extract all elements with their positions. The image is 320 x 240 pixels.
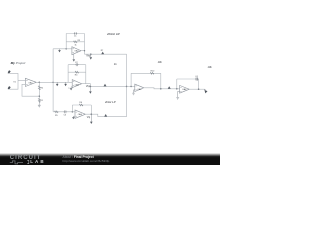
svg-text:R2: R2 <box>41 87 44 89</box>
ground stub below OA6 <box>176 91 179 99</box>
feedback rect right vertical <box>84 34 86 55</box>
node rect-output junction right-stage <box>160 88 162 90</box>
wire T1 to node <box>9 73 18 80</box>
svg-text:R7: R7 <box>101 50 103 52</box>
logo LAB glyph box <box>27 160 29 163</box>
wire divider vertical <box>38 82 40 105</box>
probe below bottom node <box>90 114 93 124</box>
wire T2 up to + input <box>9 80 25 89</box>
feedback rect left vertical far-right <box>176 79 178 89</box>
footer line 1 <box>63 155 94 159</box>
svg-text:R6: R6 <box>79 102 82 104</box>
feedback rect left vertical <box>65 34 67 49</box>
resistor R10 on right feedback <box>150 70 155 74</box>
wire top-stage input row <box>53 48 72 50</box>
flag below top input wire <box>58 49 61 53</box>
wire OA5 output row <box>144 88 180 89</box>
flag on wire to OA6 <box>168 86 171 89</box>
flag R9 on bottom row <box>104 114 107 117</box>
wire OA1 output row <box>36 81 72 83</box>
svg-text:OA2: OA2 <box>74 50 79 53</box>
node to bottom stage branch <box>52 82 54 84</box>
feedback rect right vertical right-stage <box>160 73 162 89</box>
feedback branch 2 wire <box>68 71 86 73</box>
logo LAB text <box>30 159 46 164</box>
flag on main row 1 <box>56 82 59 86</box>
svg-text:R4: R4 <box>75 75 78 77</box>
feedback rect right vertical far-right <box>198 79 200 89</box>
svg-text:R5: R5 <box>55 115 58 117</box>
ground (divider) <box>38 105 41 107</box>
node feedback left bottom <box>72 111 74 113</box>
node feedback left right-stage <box>130 86 132 88</box>
resistor R1 (divider bottom) <box>38 98 43 102</box>
feedback rect top wire <box>68 64 86 66</box>
VEE stub below OA4 <box>72 116 75 119</box>
feedback rect top wire far-right <box>177 78 199 80</box>
node probe junction top row <box>90 53 92 55</box>
wire bus to OA5 input <box>127 85 135 87</box>
node middle output <box>90 86 92 88</box>
footer bar <box>0 153 220 166</box>
resistor R5 on input <box>55 111 59 117</box>
VEE stub below OA3 <box>70 87 73 90</box>
probe below middle node <box>89 86 92 93</box>
feedback rect top wire bottom <box>72 104 91 106</box>
input terminal T2 <box>8 86 11 89</box>
feedback rect left vertical bottom <box>71 105 73 112</box>
feedback rect left vertical <box>67 65 69 83</box>
node bus/middle row <box>126 86 128 88</box>
footer line 2 url <box>63 159 110 163</box>
node feedback left far-right <box>176 88 178 90</box>
svg-text:10k: 10k <box>158 60 163 64</box>
flag R7 on top row <box>101 50 104 54</box>
node rect-output junction far-right <box>198 88 200 90</box>
CircuitLab logo <box>10 155 42 161</box>
svg-text:200Hz HP: 200Hz HP <box>106 32 120 36</box>
flag R8 on middle row <box>104 84 107 87</box>
node feedback left <box>65 48 67 50</box>
svg-text:C1: C1 <box>74 36 77 38</box>
resistor R6 on bottom feedback <box>79 102 83 106</box>
svg-text:1k: 1k <box>114 62 117 66</box>
node rect-output junction <box>84 50 85 51</box>
wire OA2 output row <box>81 51 127 55</box>
svg-text:10k: 10k <box>208 65 213 69</box>
feedback tap node <box>39 95 41 97</box>
resistor R2 (feedback divider top) <box>38 86 44 90</box>
resistor R4 on branch 2 <box>75 71 79 76</box>
op-amp OA4 (bottom) <box>75 110 85 118</box>
op-amp OA1 (left buffer) <box>25 78 36 86</box>
feedback rect right vertical bottom <box>90 105 92 114</box>
wire OA3 output jog <box>82 84 127 87</box>
capacitor C1 on top branch <box>74 32 77 38</box>
feedback rect right vertical <box>85 65 87 84</box>
feedback rect left vertical right-stage <box>130 73 132 86</box>
feedback rect top wire right-stage <box>131 72 161 74</box>
svg-text:1k: 1k <box>75 44 77 46</box>
VEE stub below OA2 <box>73 54 76 62</box>
wire bottom input row <box>53 111 75 113</box>
output terminal <box>204 89 207 93</box>
feedback rect top wire <box>66 33 84 35</box>
flag on main row 2 <box>64 82 70 89</box>
op-amp OA2 (top) <box>72 47 81 55</box>
capacitor C2 on top branch <box>75 62 79 66</box>
svg-text:My Project: My Project <box>11 61 26 65</box>
wire OA6 output <box>189 88 205 90</box>
node at divider top <box>39 82 41 84</box>
wire feedback return to inverting input <box>22 84 39 96</box>
probe below top node <box>90 54 93 59</box>
input terminal T1 <box>8 70 11 73</box>
wire OA4 output jog <box>85 114 126 116</box>
svg-text:Vlp: Vlp <box>87 117 91 119</box>
feedback branch 2 wire <box>66 41 84 43</box>
svg-text:R1: R1 <box>40 100 43 102</box>
svg-text:OA6: OA6 <box>182 88 187 91</box>
capacitor C3 on input <box>64 110 67 116</box>
wire left bus vertical <box>52 49 54 112</box>
resistor R3 on branch 2 <box>74 40 81 46</box>
capacitor C4 on far-right feedback <box>195 76 198 81</box>
node bottom output <box>91 113 93 115</box>
svg-text:V1: V1 <box>13 81 16 83</box>
svg-text:Vbp: Vbp <box>86 86 91 88</box>
svg-text:C3: C3 <box>64 115 67 117</box>
svg-text:C2: C2 <box>75 62 78 64</box>
op-amp OA3 (middle) <box>72 80 82 88</box>
wire bus vertical <box>126 54 128 116</box>
ground stub below OA5 <box>132 90 135 95</box>
svg-text:OA5: OA5 <box>137 88 142 91</box>
svg-text:C4: C4 <box>195 76 198 78</box>
svg-text:2kHz LP: 2kHz LP <box>104 100 116 104</box>
svg-text:R10: R10 <box>151 70 156 72</box>
op-amp OA6 <box>180 85 190 93</box>
op-amp OA5 <box>135 84 144 92</box>
logo waveform <box>10 160 23 163</box>
